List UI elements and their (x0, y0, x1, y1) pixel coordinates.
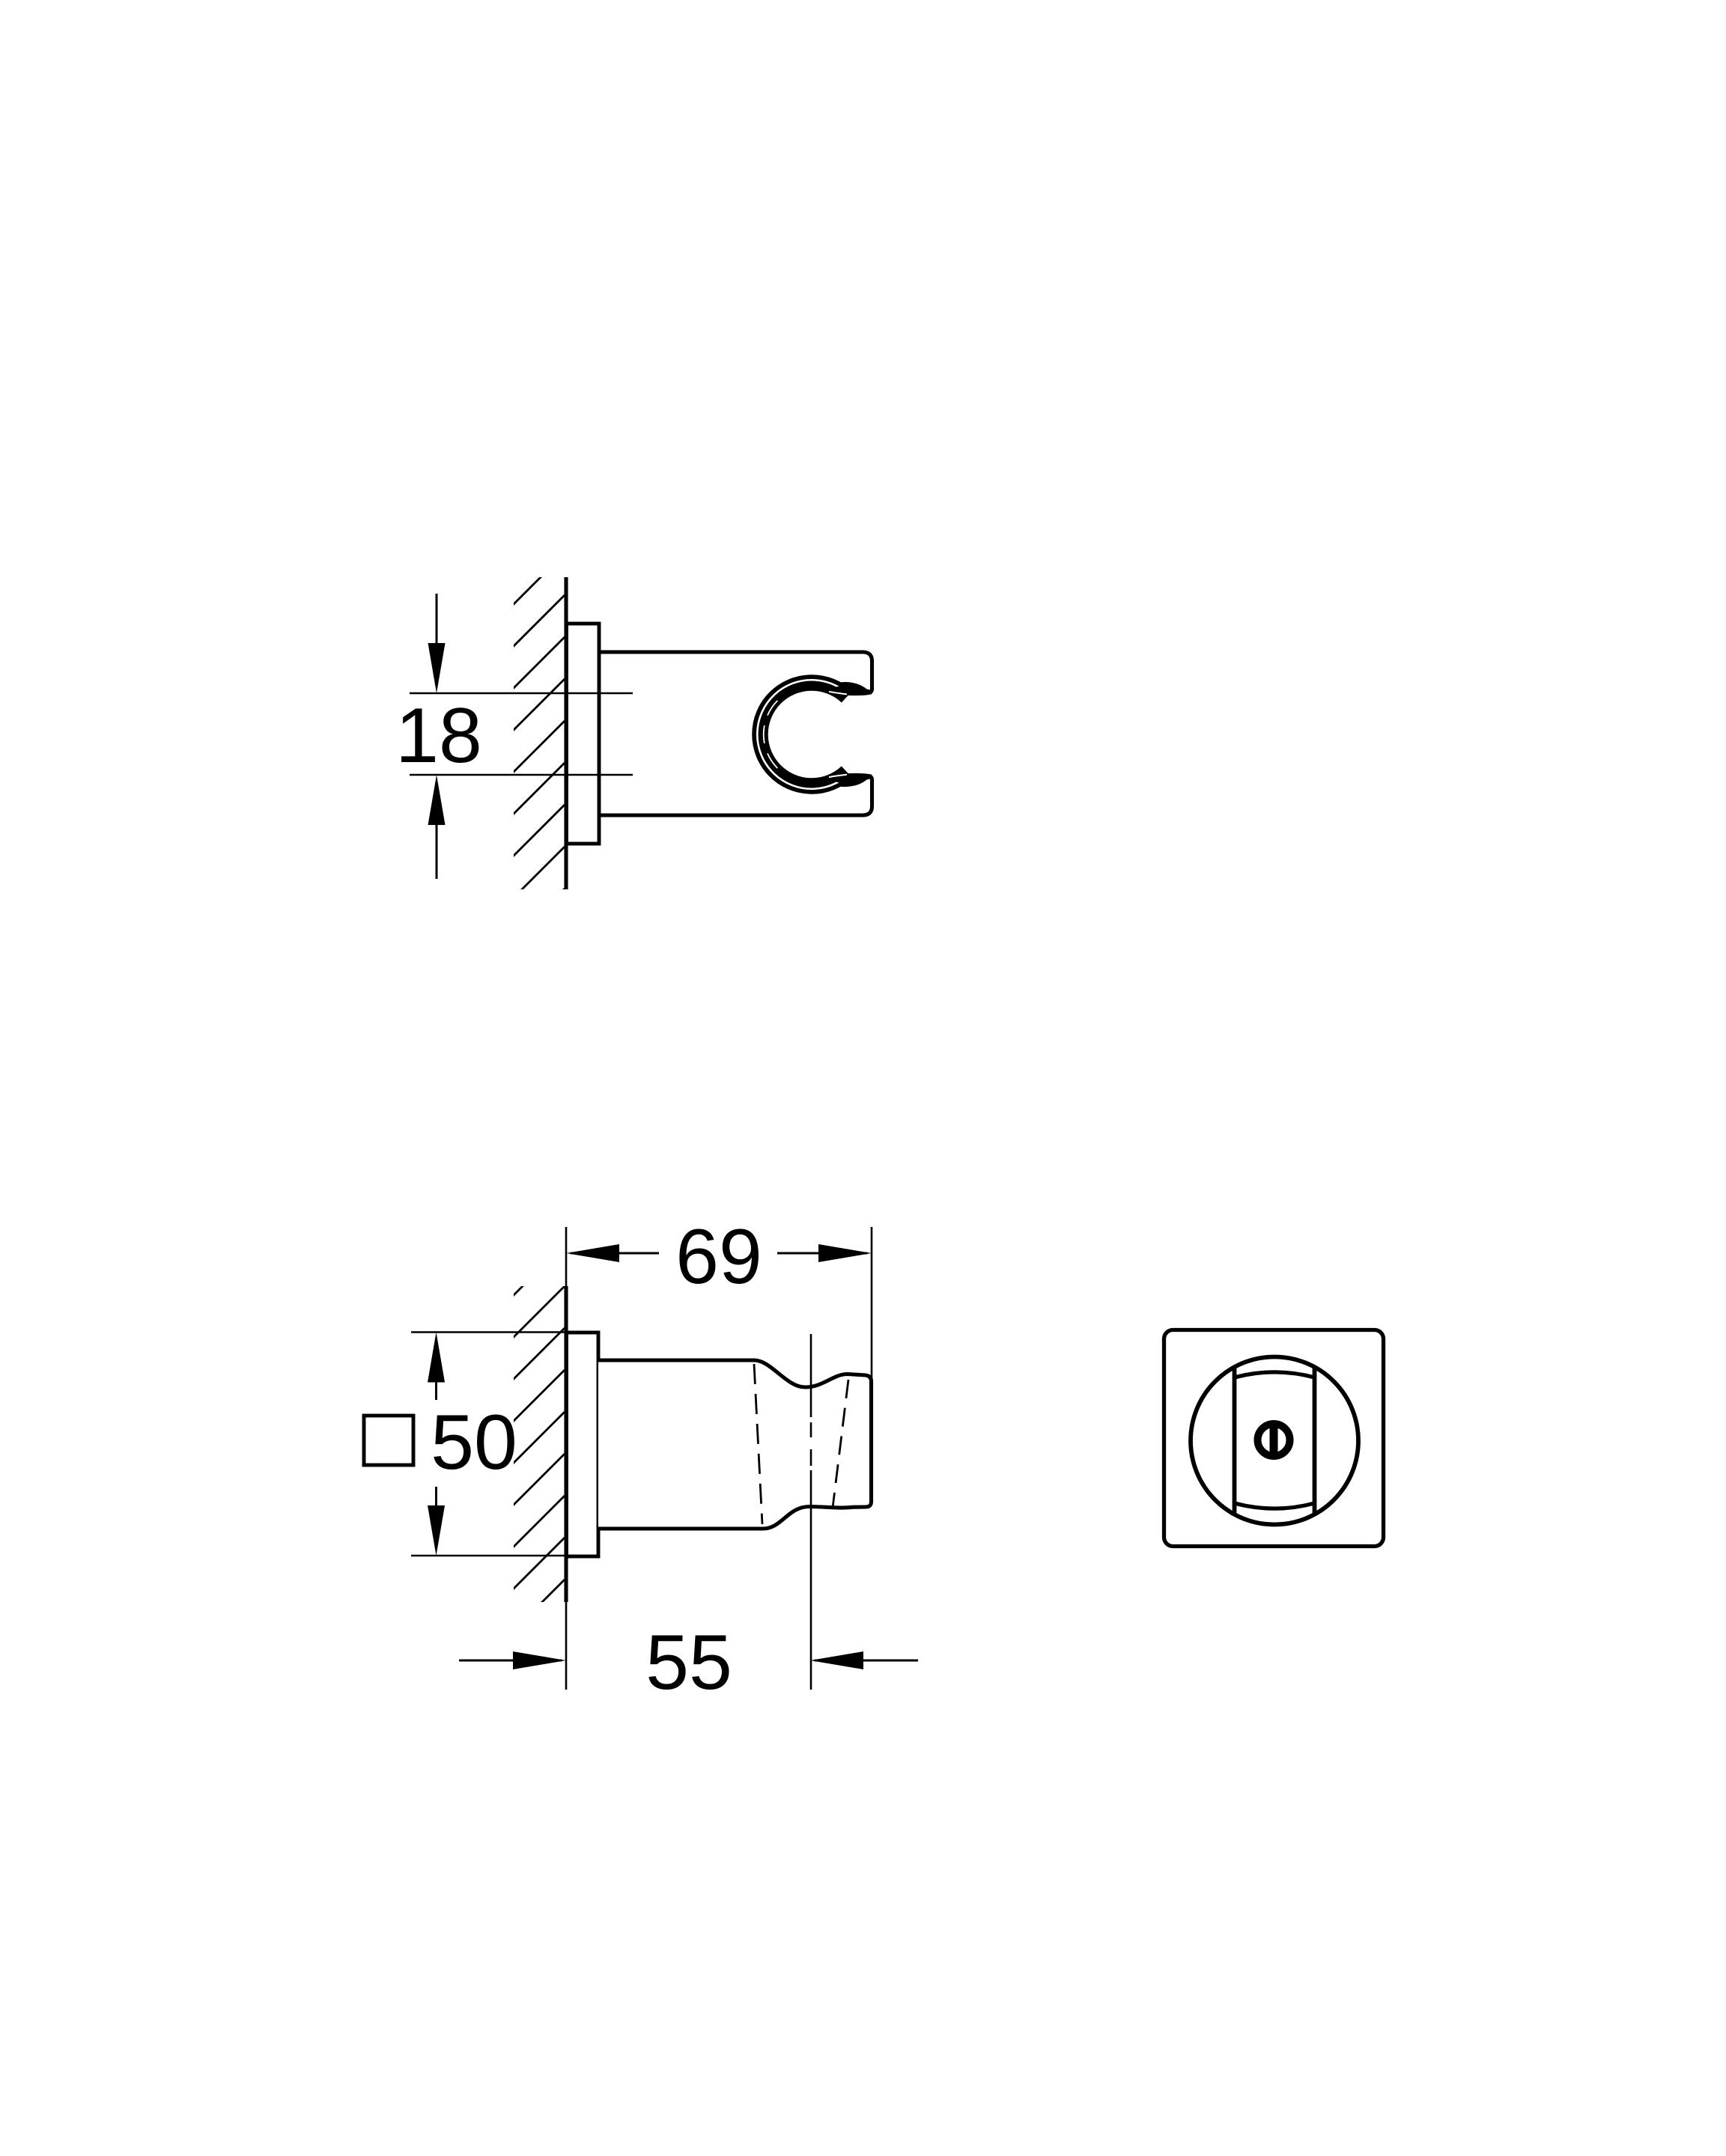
dimension 18: lower extension line (410, 774, 633, 776)
front big circle (1191, 1357, 1358, 1525)
fork junction fill bottom (828, 773, 867, 784)
dimension 55: right extension line (810, 1334, 812, 1690)
fork junction fill top (828, 686, 867, 696)
dimension 50: lower arrow (435, 1487, 437, 1508)
flange escutcheon (top view) (567, 624, 600, 844)
front left chord (1233, 1368, 1237, 1513)
cradle band inner white dashed separator (764, 701, 778, 768)
svg-text:69: 69 (675, 1213, 762, 1300)
front inner arc top (1235, 1372, 1315, 1377)
dimension 18: lower arrow (436, 808, 438, 879)
cradle band white separator arc (757, 680, 853, 788)
svg-text:18: 18 (395, 692, 482, 779)
wall line (plan) (564, 1286, 568, 1602)
dimension 69: right extension line (871, 1227, 873, 1380)
wall extension line (plan) (565, 1227, 568, 1690)
dimension 18: upper arrow (436, 594, 438, 659)
fork junction hump top (839, 684, 872, 692)
dimension 55: dim line right segment and arrow (815, 1660, 918, 1662)
flange escutcheon (plan) (567, 1333, 599, 1556)
cradle band (top view) (760, 683, 847, 786)
wall line (top view) (564, 577, 568, 889)
svg-text:50: 50 (431, 1399, 517, 1486)
hidden edge dashed line right (plan) (833, 1380, 848, 1508)
screw head circle (1258, 1424, 1290, 1456)
dimension 50: top extension line (411, 1331, 567, 1333)
dimension 50: upper arrow (435, 1379, 437, 1400)
wall hatching (top view) (472, 553, 565, 981)
front square flange (1164, 1330, 1384, 1547)
holder body outline (plan) (598, 1360, 872, 1529)
square symbol for 50 (364, 1416, 413, 1465)
front right chord (1313, 1368, 1317, 1513)
svg-text:55: 55 (645, 1619, 732, 1706)
front inner arc bottom (1235, 1503, 1315, 1508)
fork junction hump bottom (839, 776, 872, 785)
wall hatching (plan) (472, 1244, 565, 1714)
screw slot (1270, 1422, 1278, 1458)
holder body outline (top view) (599, 652, 872, 693)
dimension 55: dim line left segment and arrow (459, 1660, 562, 1662)
dimension 69: dim line left segment and arrow (571, 1252, 659, 1255)
dimension 18: upper extension line (410, 692, 633, 695)
hidden edge dashed line left (plan) (754, 1364, 762, 1524)
dimension 69: dim line right segment and arrow (777, 1252, 867, 1255)
dimension 50: bottom extension line (411, 1555, 567, 1557)
